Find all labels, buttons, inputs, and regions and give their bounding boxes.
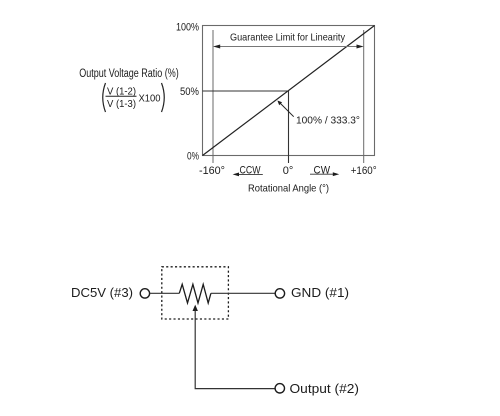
- guarantee limit double arrow: [213, 45, 364, 49]
- wire resistor to pin1: [211, 292, 275, 294]
- formula right parenthesis: [162, 83, 165, 112]
- potentiometer dashed enclosure: [162, 267, 229, 319]
- terminal pin 3 circle: [140, 289, 149, 298]
- svg-text:0°: 0°: [283, 165, 294, 177]
- svg-text:CW: CW: [314, 165, 331, 177]
- svg-text:Output (#2): Output (#2): [290, 381, 360, 396]
- -160 deg guide line: [212, 30, 214, 163]
- svg-text:0%: 0%: [187, 151, 199, 163]
- wiper wire down and to output: [195, 311, 275, 389]
- svg-text:GND (#1): GND (#1): [291, 285, 349, 300]
- svg-text:Rotational Angle (°): Rotational Angle (°): [248, 183, 329, 195]
- wiper arrow: [193, 305, 198, 311]
- terminal pin 1 circle: [275, 289, 284, 298]
- svg-text:+160°: +160°: [351, 165, 377, 177]
- svg-text:-160°: -160°: [199, 165, 225, 177]
- svg-text:V (1-3): V (1-3): [107, 99, 136, 110]
- 0 deg vertical line: [288, 91, 290, 163]
- 50% horizontal line: [203, 90, 289, 92]
- transfer curve diagonal: [203, 26, 375, 156]
- svg-text:X100: X100: [139, 94, 161, 105]
- svg-text:100% / 333.3°: 100% / 333.3°: [296, 114, 360, 126]
- terminal pin 2 circle: [275, 384, 284, 393]
- formula fraction bar: [106, 95, 137, 97]
- +160 deg guide line: [363, 30, 365, 163]
- svg-text:50%: 50%: [180, 86, 199, 98]
- svg-text:Output Voltage Ratio (%): Output Voltage Ratio (%): [79, 68, 179, 80]
- svg-text:DC5V (#3): DC5V (#3): [71, 285, 133, 300]
- graph plot box: [203, 26, 375, 156]
- svg-text:Guarantee Limit for Linearity: Guarantee Limit for Linearity: [230, 32, 346, 44]
- svg-text:100%: 100%: [176, 22, 199, 34]
- resistor element zigzag: [179, 284, 211, 303]
- annotation leader arrow: [277, 101, 293, 117]
- wire pin3 to resistor: [150, 292, 180, 294]
- formula left parenthesis: [103, 83, 106, 112]
